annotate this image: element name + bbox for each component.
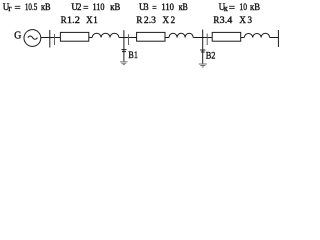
svg-text:X: X	[163, 15, 170, 25]
svg-text:2: 2	[171, 15, 176, 25]
svg-text:к: к	[224, 4, 228, 13]
svg-text:3: 3	[144, 2, 149, 12]
svg-text:X: X	[239, 15, 246, 25]
svg-text:10.5: 10.5	[25, 2, 38, 12]
svg-text:В1: В1	[128, 51, 138, 61]
svg-text:110: 110	[161, 2, 174, 12]
svg-text:110: 110	[93, 2, 105, 12]
svg-text:кВ: кВ	[250, 2, 260, 12]
svg-text:1.2: 1.2	[67, 15, 80, 25]
svg-text:1: 1	[93, 15, 98, 25]
svg-text:2.3: 2.3	[144, 15, 157, 25]
svg-text:3: 3	[248, 15, 253, 25]
svg-text:В2: В2	[206, 52, 216, 62]
svg-text:2: 2	[77, 2, 82, 12]
svg-text:кВ: кВ	[179, 2, 188, 12]
svg-text:кВ: кВ	[110, 2, 120, 12]
svg-text:X: X	[86, 15, 93, 25]
svg-text:G: G	[14, 31, 21, 42]
svg-text:R: R	[213, 15, 219, 25]
svg-text:R: R	[61, 15, 67, 25]
svg-text:3.4: 3.4	[220, 15, 233, 25]
svg-text:R: R	[136, 15, 142, 25]
svg-text:10: 10	[239, 2, 247, 12]
svg-text:кВ: кВ	[41, 2, 51, 12]
